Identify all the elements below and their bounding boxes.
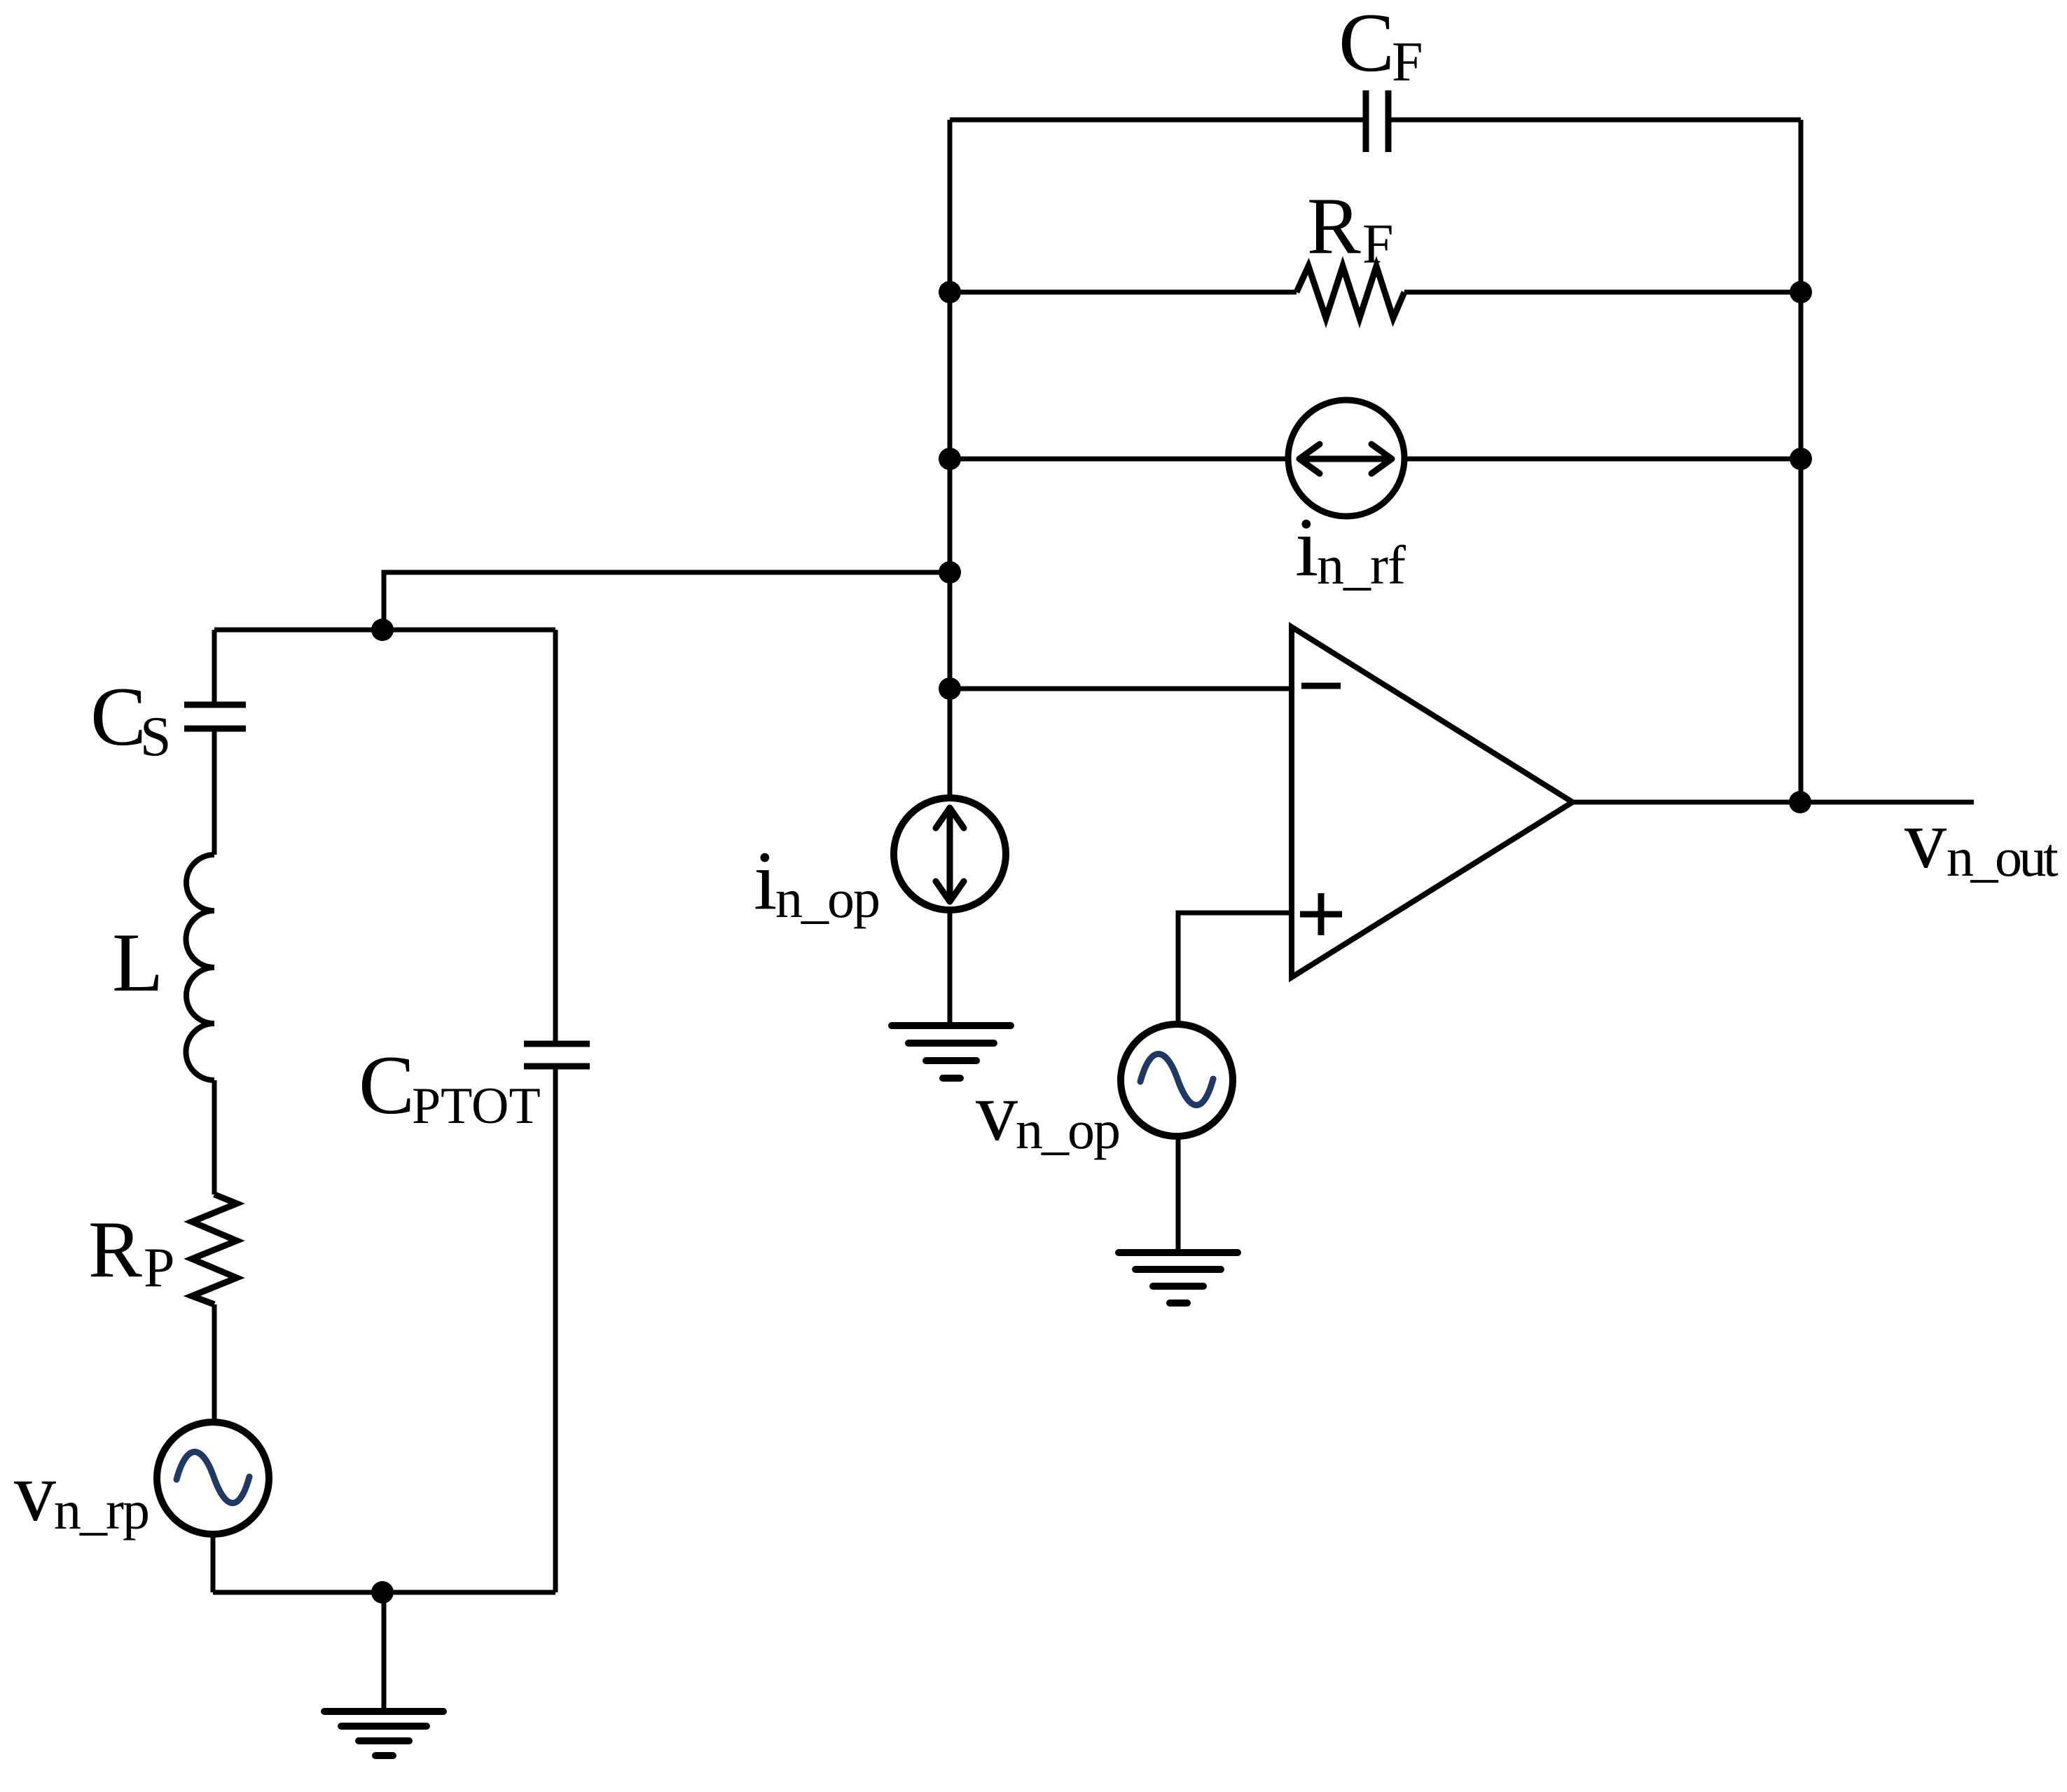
- svg-text:S: S: [140, 706, 172, 768]
- svg-text:v: v: [14, 1445, 56, 1538]
- wire: in_op to ground: [948, 910, 953, 1026]
- node: in_rf row left: [939, 448, 961, 470]
- svg-text:v: v: [976, 1065, 1018, 1158]
- wire: bottom node to ground: [382, 1592, 387, 1711]
- wire: RF row right segment: [1404, 290, 1801, 295]
- capacitor CF: [1366, 90, 1388, 152]
- svg-text:R: R: [1307, 181, 1361, 270]
- node: inverting input: [939, 677, 961, 700]
- label L: [112, 916, 163, 1009]
- svg-text:R: R: [88, 1205, 142, 1294]
- svg-text:C: C: [90, 670, 146, 763]
- svg-text:C: C: [1339, 0, 1395, 89]
- wire: vn_op to ground: [1176, 1136, 1181, 1253]
- label vn_out: [1904, 792, 2059, 888]
- node: RF row left: [939, 281, 961, 303]
- label RF: [1307, 181, 1394, 275]
- svg-text:C: C: [359, 1038, 415, 1131]
- wire: non-inverting input: [1178, 913, 1292, 1024]
- svg-text:i: i: [754, 834, 777, 927]
- wire: L to RP: [212, 1080, 217, 1194]
- wire: output: [1572, 800, 1974, 805]
- svg-text:n_rf: n_rf: [1317, 535, 1406, 595]
- voltage source vn_op: [1121, 1024, 1233, 1136]
- wire: RP to vn_rp: [212, 1304, 217, 1422]
- wire: inverting input: [950, 687, 1292, 691]
- svg-text:i: i: [1295, 500, 1318, 593]
- wire: right feedback vertical: [1799, 120, 1804, 802]
- current source in_op: [894, 798, 1006, 910]
- label RP: [88, 1205, 175, 1299]
- svg-text:L: L: [112, 916, 163, 1009]
- wire: CPTOT branch: [553, 630, 558, 1592]
- label CF: [1339, 0, 1423, 93]
- svg-text:v: v: [1904, 792, 1947, 885]
- resistor RF: [1297, 266, 1404, 318]
- label CS: [90, 670, 172, 768]
- svg-text:n_out: n_out: [1947, 827, 2059, 888]
- op-amp U1: [1292, 627, 1572, 977]
- ground: left circuit: [324, 1711, 443, 1756]
- wire: RF row left segment: [950, 290, 1297, 295]
- voltage source vn_rp: [157, 1422, 269, 1534]
- wire: left circuit bottom: [213, 1590, 555, 1595]
- label CPTOT: [359, 1038, 541, 1135]
- current source in_rf: [1288, 400, 1404, 516]
- svg-text:n_op: n_op: [1016, 1099, 1119, 1160]
- svg-text:n_op: n_op: [775, 868, 879, 929]
- wire: top feedback wire (CF row): [950, 118, 1801, 123]
- label vn_rp: [14, 1445, 148, 1541]
- node: in_rf row right: [1790, 448, 1812, 470]
- label in_op: [754, 834, 879, 929]
- svg-text:F: F: [1362, 214, 1394, 275]
- wire: left circuit top: [214, 628, 555, 633]
- ground: below in_op: [892, 1026, 1011, 1078]
- node: summing junction upper: [939, 561, 961, 584]
- node: RF row right: [1790, 281, 1812, 303]
- wire: left feedback vertical: [948, 120, 953, 798]
- wire: in_rf row left segment: [950, 457, 1290, 462]
- node: left circuit bottom: [371, 1581, 394, 1604]
- wire: in_rf row right segment: [1403, 457, 1801, 462]
- inductor L: [186, 855, 215, 1080]
- node: left circuit top: [371, 619, 394, 641]
- wire: vn_rp to bottom: [211, 1534, 216, 1592]
- wire: CS branch top: [212, 630, 217, 705]
- svg-text:PTOT: PTOT: [412, 1077, 541, 1135]
- svg-text:n_rp: n_rp: [54, 1480, 148, 1541]
- resistor RP: [192, 1194, 237, 1304]
- label in_rf: [1295, 500, 1406, 595]
- svg-text:P: P: [144, 1237, 175, 1299]
- wire: input node row (from source network): [384, 572, 950, 630]
- wire: CS to L: [212, 729, 217, 855]
- ground: below vn_op: [1119, 1253, 1238, 1303]
- svg-text:F: F: [1392, 32, 1423, 93]
- label vn_op: [976, 1065, 1119, 1160]
- node: output: [1789, 791, 1811, 813]
- capacitor CS: [184, 705, 246, 729]
- capacitor CPTOT: [524, 1044, 590, 1066]
